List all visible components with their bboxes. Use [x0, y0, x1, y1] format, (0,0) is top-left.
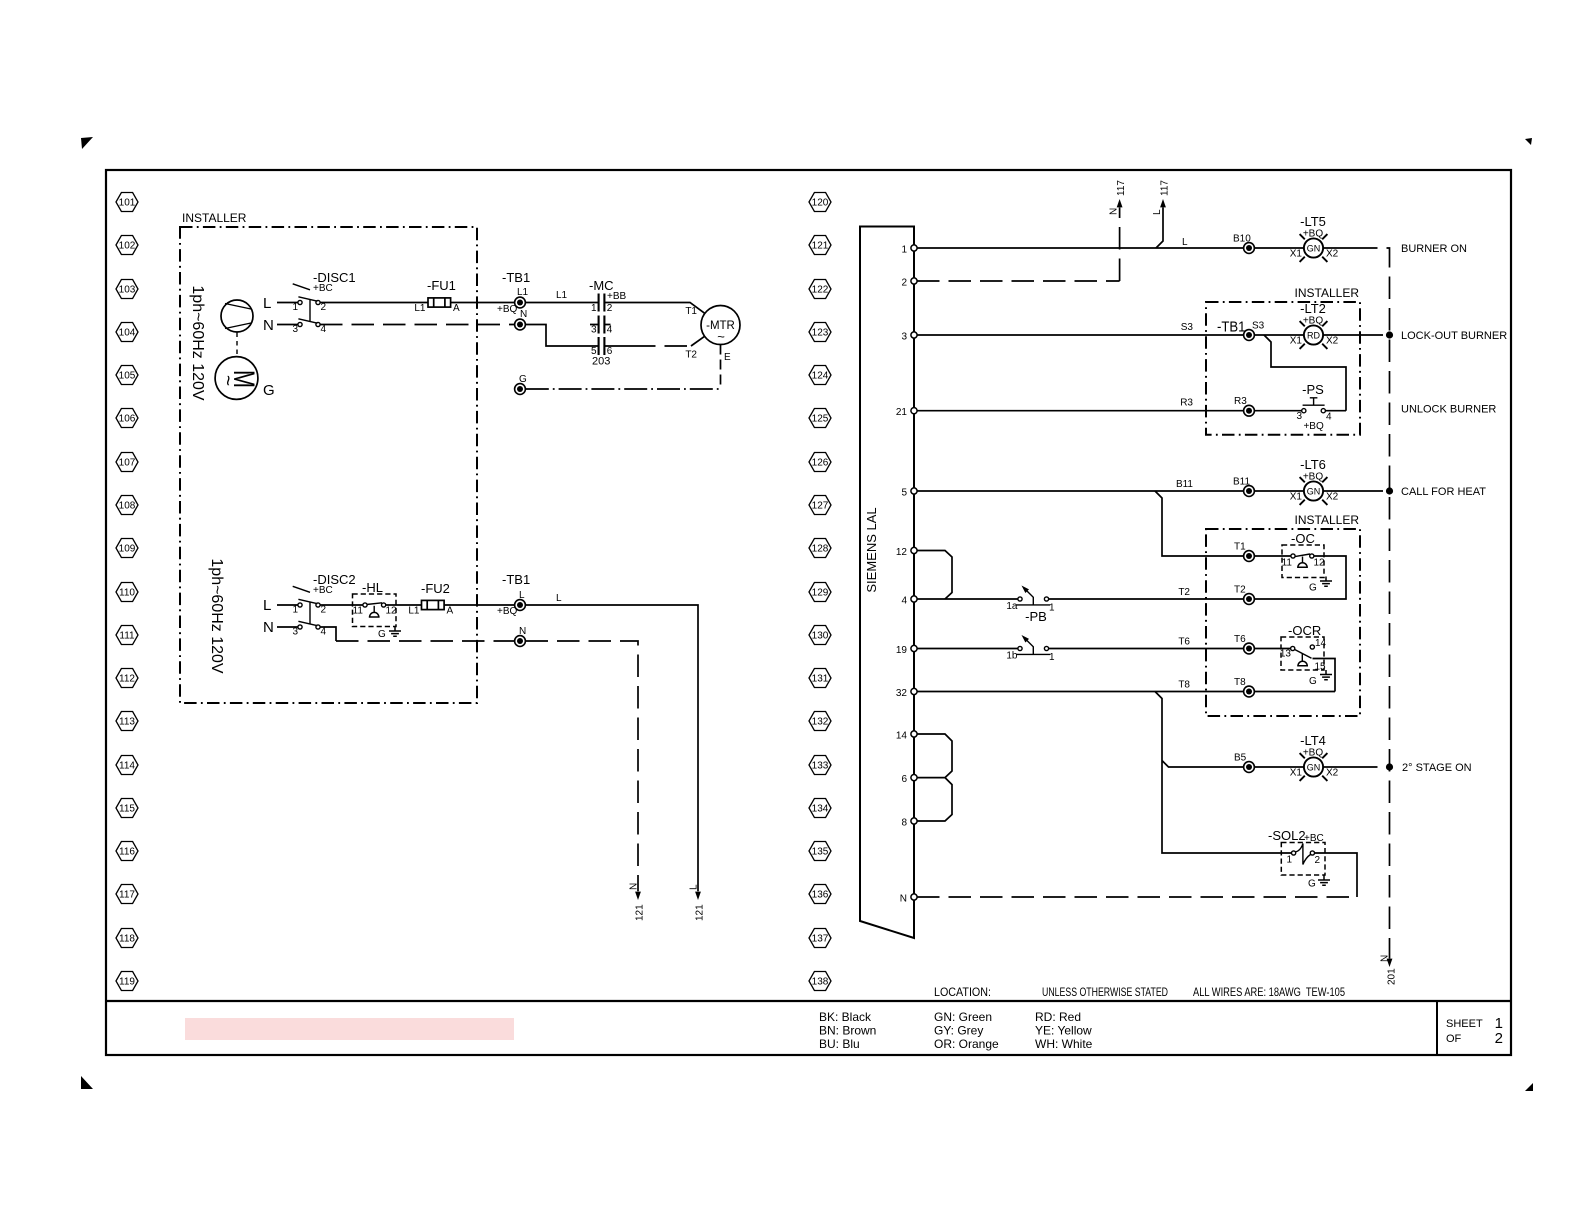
line number 121	[809, 236, 831, 255]
svg-text:1: 1	[591, 303, 597, 314]
wire FU1 to TB1 L1	[451, 302, 515, 304]
svg-text:121: 121	[635, 904, 646, 921]
wire DISC2 pin4 bend to TB1 N (dashed)	[320, 627, 515, 641]
svg-text:X1: X1	[1290, 336, 1303, 347]
line number 130	[809, 626, 831, 645]
line number 126	[809, 453, 831, 472]
svg-text:G: G	[263, 382, 275, 399]
svg-text:138: 138	[812, 977, 829, 988]
svg-text:12: 12	[1314, 558, 1326, 569]
svg-text:3: 3	[292, 627, 298, 638]
svg-text:14: 14	[896, 731, 908, 742]
LAL pin 2	[901, 278, 917, 289]
svg-text:LOCATION:: LOCATION:	[934, 985, 991, 999]
svg-text:G: G	[1309, 676, 1317, 687]
wire 2: LAL pin2 dashed to arrow N 117	[917, 180, 1127, 281]
svg-text:2: 2	[321, 302, 327, 313]
svg-text:109: 109	[119, 544, 136, 555]
terminal TB1:N	[515, 309, 528, 330]
svg-text:T1: T1	[685, 306, 697, 317]
svg-text:L1: L1	[408, 606, 420, 617]
terminal TB1:T8	[1234, 677, 1254, 697]
svg-text:137: 137	[812, 934, 829, 945]
svg-text:G: G	[1309, 583, 1317, 594]
legend colour abbreviations column 2	[934, 1010, 999, 1051]
wire R3 to PS pin3	[1255, 410, 1303, 412]
terminal TB1:R3	[1234, 396, 1254, 416]
line number 112	[116, 669, 138, 688]
svg-text:19: 19	[896, 645, 908, 656]
wire PS pin4 stub	[1325, 410, 1346, 412]
branch arrow L 117	[1152, 180, 1171, 248]
branch wire 32 down to B5 and SOL2 rows	[1155, 692, 1294, 854]
wire B10 to lamp LT5	[1255, 247, 1356, 249]
LAL pin 19	[896, 645, 917, 656]
svg-text:RD: Red: RD: Red	[1035, 1010, 1081, 1024]
wire OCR pin15 loop to T8	[1313, 659, 1336, 692]
operating control OCR	[1280, 623, 1327, 673]
wire 3: LAL pin3 to S3	[917, 322, 1249, 335]
node N (lower supply)	[263, 619, 274, 636]
svg-text:-PB: -PB	[1025, 609, 1047, 624]
output label 2nd STAGE ON	[1402, 762, 1472, 774]
svg-text:1b: 1b	[1006, 651, 1018, 662]
svg-text:126: 126	[812, 458, 829, 469]
svg-text:BURNER ON: BURNER ON	[1401, 243, 1467, 255]
svg-text:OR: Orange: OR: Orange	[934, 1037, 999, 1051]
svg-text:T2: T2	[1178, 587, 1190, 598]
svg-text:124: 124	[812, 371, 829, 382]
svg-text:-TB1: -TB1	[1217, 319, 1246, 336]
svg-text:L1: L1	[517, 287, 529, 298]
svg-text:L: L	[1182, 237, 1188, 248]
title block top rule	[106, 1000, 1511, 1002]
line number 107	[116, 453, 138, 472]
line number 106	[116, 409, 138, 428]
svg-text:YE: Yellow: YE: Yellow	[1035, 1024, 1092, 1038]
corner mark bottom-right	[1525, 1083, 1533, 1091]
svg-text:SHEET: SHEET	[1446, 1018, 1483, 1030]
svg-text:112: 112	[119, 674, 135, 685]
svg-text:BU: Blu: BU: Blu	[819, 1037, 860, 1051]
svg-text:GN: Green: GN: Green	[934, 1010, 992, 1024]
svg-text:2: 2	[901, 278, 907, 289]
sheet arrow N 201	[1380, 955, 1398, 985]
svg-text:G: G	[378, 629, 386, 640]
svg-text:105: 105	[119, 371, 136, 382]
svg-text:~: ~	[217, 375, 238, 386]
svg-text:12: 12	[896, 547, 908, 558]
svg-text:X2: X2	[1326, 249, 1339, 260]
line number 123	[809, 323, 831, 342]
line number 132	[809, 712, 831, 731]
svg-text:203: 203	[592, 356, 610, 368]
svg-text:1: 1	[1049, 603, 1055, 614]
svg-text:L: L	[263, 597, 271, 614]
svg-text:T8: T8	[1234, 677, 1246, 688]
svg-text:104: 104	[119, 328, 136, 339]
svg-text:117: 117	[1160, 180, 1171, 196]
line number 127	[809, 496, 831, 515]
svg-text:103: 103	[119, 285, 136, 296]
svg-text:-LT2: -LT2	[1300, 301, 1326, 316]
corner mark top-right	[1525, 138, 1532, 145]
disconnect switch DISC1	[292, 270, 355, 335]
svg-text:R3: R3	[1234, 396, 1247, 407]
node L (upper supply)	[263, 295, 271, 312]
svg-text:GN: GN	[1307, 244, 1321, 254]
svg-text:N: N	[1109, 208, 1120, 215]
wire MC 6 to motor T2 (dashed)	[604, 336, 704, 360]
junction dot call-for-heat row	[1386, 487, 1393, 494]
installer boundary box (right lower)	[1206, 513, 1360, 716]
svg-text:127: 127	[812, 501, 829, 512]
lamp LT4 (GN)	[1290, 733, 1339, 781]
svg-text:3: 3	[1296, 411, 1302, 422]
svg-text:-FU1: -FU1	[427, 278, 456, 293]
svg-text:117: 117	[1116, 180, 1127, 196]
svg-text:134: 134	[812, 804, 829, 815]
svg-text:5: 5	[901, 488, 907, 499]
svg-text:+BQ: +BQ	[1303, 229, 1324, 240]
svg-text:4: 4	[1326, 412, 1332, 423]
line number 103	[116, 280, 138, 299]
line number 138	[809, 972, 831, 991]
wire DISC2 pin2 to HL	[320, 604, 363, 606]
field wiring bus (dashed)	[1355, 248, 1390, 959]
svg-text:X1: X1	[1290, 768, 1303, 779]
svg-text:N: N	[520, 309, 527, 320]
line number 137	[809, 929, 831, 948]
line number 134	[809, 799, 831, 818]
installer boundary box (left)	[180, 211, 477, 703]
svg-text:INSTALLER: INSTALLER	[1295, 513, 1360, 527]
terminal TB1:S3	[1244, 321, 1265, 341]
lamp LT6 (GN)	[1290, 457, 1339, 505]
svg-text:A: A	[447, 606, 454, 617]
line number 133	[809, 756, 831, 775]
terminal TB1:N (lower)	[515, 626, 527, 646]
ground G below HL	[378, 627, 401, 641]
LAL pin 4	[901, 596, 917, 607]
terminal block TB1 (upper) label	[497, 270, 530, 315]
svg-text:4: 4	[321, 627, 327, 638]
svg-text:-LT4: -LT4	[1300, 733, 1326, 748]
wire N to DISC1 pin3	[277, 324, 298, 326]
svg-text:S3: S3	[1181, 322, 1194, 333]
output label BURNER ON	[1401, 243, 1467, 255]
svg-text:RD: RD	[1307, 331, 1320, 341]
terminal TB1:T1	[1234, 542, 1254, 562]
LAL pin 14	[896, 731, 917, 742]
terminal TB1:B11	[1233, 477, 1254, 497]
svg-text:-LT5: -LT5	[1300, 214, 1326, 229]
pilot light HL	[353, 580, 398, 627]
title block divider	[1436, 1001, 1438, 1055]
controller SIEMENS LAL block	[860, 227, 914, 939]
svg-text:130: 130	[812, 631, 829, 642]
node N (upper supply)	[263, 317, 274, 334]
wire 4: LAL pin4 to PB	[917, 598, 1020, 600]
svg-text:201: 201	[1387, 968, 1398, 985]
svg-text:BN: Brown: BN: Brown	[819, 1024, 876, 1038]
svg-text:8: 8	[901, 818, 907, 829]
svg-text:114: 114	[119, 761, 135, 772]
line number 125	[809, 409, 831, 428]
svg-text:GY: Grey: GY: Grey	[934, 1024, 983, 1038]
svg-text:WH: White: WH: White	[1035, 1037, 1093, 1051]
svg-text:B11: B11	[1176, 479, 1193, 490]
terminal TB1:L (lower)	[515, 590, 526, 610]
svg-text:101: 101	[119, 198, 136, 209]
svg-text:122: 122	[812, 285, 829, 296]
svg-text:T1: T1	[1234, 542, 1246, 553]
line number 119	[116, 972, 138, 991]
svg-text:X2: X2	[1326, 768, 1339, 779]
svg-text:X2: X2	[1326, 336, 1339, 347]
svg-text:L1: L1	[556, 290, 568, 301]
svg-text:21: 21	[896, 407, 908, 418]
svg-text:117: 117	[119, 890, 135, 901]
svg-text:-FU2: -FU2	[421, 581, 450, 596]
page border frame	[106, 170, 1511, 1055]
svg-text:1: 1	[292, 605, 298, 616]
svg-text:131: 131	[812, 674, 829, 685]
svg-text:11: 11	[1282, 558, 1293, 569]
svg-text:1: 1	[292, 302, 298, 313]
legend colour abbreviations column 1	[819, 1010, 876, 1051]
push button PS	[1296, 382, 1332, 432]
terminal TB1:B10	[1233, 234, 1254, 254]
svg-text:+BC: +BC	[1304, 833, 1324, 844]
motor earth lead E (dashed)	[721, 345, 732, 390]
svg-text:1ph~60Hz 120V: 1ph~60Hz 120V	[208, 558, 225, 674]
push button PB (1b)	[1006, 635, 1055, 663]
svg-text:2: 2	[321, 605, 327, 616]
svg-text:136: 136	[812, 890, 829, 901]
line number 131	[809, 669, 831, 688]
LAL pin N	[900, 894, 917, 905]
line number 124	[809, 366, 831, 385]
svg-text:+BQ: +BQ	[1303, 748, 1324, 759]
wire 19: LAL pin19 to PB (1b)	[917, 648, 1020, 650]
supply label 1ph 60Hz 120V (upper)	[189, 285, 206, 401]
svg-text:-SOL2: -SOL2	[1268, 828, 1306, 843]
svg-text:119: 119	[119, 977, 135, 988]
line number 101	[116, 193, 138, 212]
svg-text:-TB1: -TB1	[502, 270, 530, 285]
svg-text:ALL WIRES ARE: 18AWG TEW-105: ALL WIRES ARE: 18AWG TEW-105	[1193, 985, 1345, 999]
wire DISC1 pin4 to TB1 N (dashed)	[320, 324, 515, 326]
svg-text:132: 132	[812, 717, 829, 728]
svg-text:133: 133	[812, 761, 829, 772]
line number 115	[116, 799, 138, 818]
terminal TB1:B5	[1234, 753, 1254, 773]
wire TB1 N to sheet arrow N/121 (dashed)	[526, 641, 639, 891]
svg-text:128: 128	[812, 544, 829, 555]
wire DISC1 pin2 to FU1	[320, 302, 428, 304]
svg-text:-OCR: -OCR	[1288, 623, 1321, 638]
svg-text:3: 3	[591, 325, 597, 336]
svg-text:102: 102	[119, 241, 136, 252]
line number 113	[116, 712, 138, 731]
svg-text:3: 3	[292, 324, 298, 335]
wire FU2 to TB1 L (lower)	[444, 604, 514, 606]
lamp LT5 (GN)	[1290, 214, 1339, 262]
svg-text:135: 135	[812, 847, 829, 858]
svg-text:~: ~	[717, 329, 725, 344]
svg-text:14: 14	[1315, 638, 1327, 649]
svg-text:L: L	[556, 593, 562, 604]
note LOCATION	[934, 985, 991, 999]
sheet arrow N 121	[629, 883, 646, 921]
svg-text:A: A	[453, 303, 460, 314]
svg-text:INSTALLER: INSTALLER	[1295, 286, 1360, 300]
LAL pin 32	[896, 688, 917, 699]
svg-text:4: 4	[901, 596, 907, 607]
svg-text:L: L	[1152, 209, 1163, 215]
svg-text:B5: B5	[1234, 753, 1247, 764]
svg-text:121: 121	[695, 904, 706, 921]
wire MC 2 to motor T1	[604, 303, 704, 318]
corner mark top-left	[81, 137, 93, 149]
bracket LAL pin14 to pin6	[917, 734, 952, 778]
svg-text:3: 3	[901, 332, 907, 343]
line number 104	[116, 323, 138, 342]
wire B5 to lamp LT4 and out	[1255, 766, 1356, 768]
fan symbol	[221, 300, 253, 332]
svg-text:1: 1	[1049, 652, 1055, 663]
line number 110	[116, 583, 138, 602]
LAL pin 12	[896, 547, 917, 558]
svg-text:UNLOCK BURNER: UNLOCK BURNER	[1401, 404, 1496, 416]
svg-text:LOCK-OUT BURNER: LOCK-OUT BURNER	[1401, 330, 1507, 342]
svg-text:N: N	[263, 317, 274, 334]
svg-text:+BC: +BC	[313, 283, 333, 294]
redacted title area	[185, 1018, 514, 1040]
svg-text:-LT6: -LT6	[1300, 457, 1326, 472]
line number 116	[116, 842, 138, 861]
svg-text:INSTALLER: INSTALLER	[182, 211, 247, 225]
svg-text:E: E	[724, 352, 731, 363]
legend colour abbreviations column 3	[1035, 1010, 1093, 1051]
push button PB (1a)	[1006, 586, 1055, 625]
LAL pin 1	[901, 245, 917, 256]
svg-text:120: 120	[812, 198, 829, 209]
svg-text:1ph~60Hz 120V: 1ph~60Hz 120V	[189, 285, 206, 401]
LAL pin 8	[901, 818, 917, 829]
svg-text:129: 129	[812, 588, 829, 599]
line number 128	[809, 539, 831, 558]
svg-text:111: 111	[119, 631, 135, 642]
wire HL pin12 to FU2	[386, 604, 422, 606]
wire L to DISC1 pin1	[277, 302, 298, 304]
svg-text:GN: GN	[1307, 763, 1321, 773]
line number 135	[809, 842, 831, 861]
svg-text:T2: T2	[685, 350, 697, 361]
wire SOL2 pin2 to N row	[1315, 853, 1358, 897]
supply label 1ph 60Hz 120V (lower)	[208, 558, 225, 674]
line number 136	[809, 885, 831, 904]
svg-text:T8: T8	[1178, 680, 1190, 691]
bracket LAL pin12 to pin4	[917, 551, 952, 600]
svg-text:L: L	[519, 590, 525, 601]
svg-text:-PS: -PS	[1302, 382, 1324, 397]
svg-text:+BQ: +BQ	[497, 304, 518, 315]
LAL pin 6	[901, 774, 917, 785]
svg-text:118: 118	[119, 934, 135, 945]
svg-text:2: 2	[607, 303, 613, 314]
terminal TB1:T6	[1234, 634, 1254, 654]
svg-text:N: N	[519, 626, 526, 637]
wire TB1 L1 to contactor MC (label L1)	[526, 290, 599, 303]
line number 122	[809, 280, 831, 299]
LAL pin 21	[896, 407, 917, 418]
svg-text:T6: T6	[1234, 634, 1246, 645]
svg-text:+BQ: +BQ	[1303, 316, 1324, 327]
svg-text:-TB1: -TB1	[502, 572, 530, 587]
output label LOCK-OUT BURNER	[1401, 330, 1507, 342]
svg-text:B11: B11	[1233, 477, 1250, 488]
terminal TB1:L1	[515, 287, 529, 308]
svg-text:+BQ: +BQ	[1303, 421, 1324, 432]
svg-text:108: 108	[119, 501, 136, 512]
svg-text:6: 6	[901, 774, 907, 785]
svg-text:R3: R3	[1180, 398, 1193, 409]
svg-text:N: N	[900, 894, 907, 905]
svg-text:+BB: +BB	[607, 291, 627, 302]
svg-text:X1: X1	[1290, 249, 1303, 260]
ground G below SOL2	[1308, 876, 1330, 890]
svg-text:1: 1	[1286, 855, 1292, 866]
svg-text:L: L	[263, 295, 271, 312]
svg-text:-HL: -HL	[362, 580, 383, 595]
line number 129	[809, 583, 831, 602]
svg-text:GN: GN	[1307, 487, 1321, 497]
svg-text:CALL FOR HEAT: CALL FOR HEAT	[1401, 486, 1486, 498]
wire N: LAL pinN dashed to SOL2 return	[917, 896, 1357, 898]
svg-text:2: 2	[1495, 1030, 1503, 1047]
line number 118	[116, 929, 138, 948]
svg-text:2: 2	[1315, 855, 1321, 866]
terminal TB1:G	[515, 374, 527, 394]
wire OC pin12 loop to T2	[1255, 556, 1347, 599]
svg-text:N: N	[1380, 955, 1391, 962]
svg-text:N: N	[629, 883, 640, 890]
wire 5: LAL pin5 to B11	[917, 479, 1249, 491]
svg-text:X2: X2	[1326, 492, 1339, 503]
svg-text:116: 116	[119, 847, 135, 858]
svg-text:T6: T6	[1178, 637, 1190, 648]
terminal TB1:T2	[1234, 585, 1254, 605]
svg-text:15: 15	[1315, 662, 1327, 673]
line number 111	[116, 626, 138, 645]
wire B11 to lamp LT6 and out	[1255, 490, 1361, 492]
svg-text:4: 4	[607, 325, 613, 336]
ground G below OC	[1309, 577, 1332, 594]
lamp LT2 (RD)	[1290, 301, 1339, 349]
svg-text:L1: L1	[414, 303, 426, 314]
sheet index	[1446, 1015, 1503, 1047]
output label UNLOCK BURNER	[1401, 404, 1496, 416]
solenoid SOL2	[1268, 828, 1325, 875]
line number 105	[116, 366, 138, 385]
wire L to DISC2 pin1	[277, 604, 298, 606]
svg-text:OF: OF	[1446, 1033, 1462, 1045]
wire S3 tap down to PS pin4	[1264, 335, 1346, 411]
fuse FU2	[408, 581, 453, 617]
svg-text:106: 106	[119, 414, 136, 425]
